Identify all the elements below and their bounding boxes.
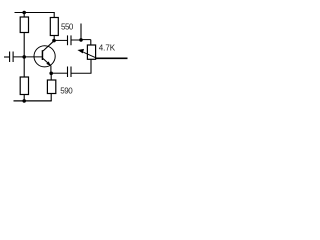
transistor Q1 emitter arrowhead (46, 61, 51, 66)
wire node to pot top (81, 39, 91, 41)
capacitor C3 plate left (67, 67, 69, 78)
capacitor C3 plate right (70, 67, 72, 78)
resistor R4 590 (47, 80, 55, 94)
resistor R2 550 (50, 18, 58, 36)
svg-text:4.7K: 4.7K (99, 43, 116, 52)
wire R2 bottom lead (53, 36, 55, 41)
wire R4 bottom lead (50, 94, 52, 101)
wire top rail Vcc (15, 12, 55, 14)
transistor Q1 base bar (42, 50, 44, 60)
potentiometer P1 box (87, 45, 95, 59)
wire bottom rail (14, 100, 52, 102)
wire R3 bottom lead (23, 95, 25, 101)
svg-text:550: 550 (61, 22, 74, 31)
svg-text:590: 590 (60, 87, 73, 96)
node emitter junction (49, 72, 53, 76)
transistor Q1 collector diagonal (43, 41, 54, 51)
capacitor C2 plate right (70, 35, 72, 45)
node junction top-left (22, 11, 26, 15)
transistor Q1 circle (34, 46, 55, 67)
resistor R1 (upper-left bias) (20, 17, 28, 33)
wire base (14, 56, 42, 58)
node collector junction (52, 39, 56, 43)
wire wiper output (96, 57, 128, 59)
node ground junction (22, 99, 26, 103)
wire collector to C2 (54, 39, 67, 41)
wire pot bottom lead (90, 59, 92, 73)
wire emitter vertical (50, 66, 52, 74)
wire C2 to node (72, 39, 82, 41)
wire left column upper lead (23, 13, 25, 18)
wire input left (4, 56, 9, 58)
capacitor C2 plate left (67, 35, 69, 45)
wire C3 to pot bottom (72, 72, 92, 74)
capacitor C1 input plate left (9, 52, 11, 63)
potentiometer P1 wiper arrowhead (77, 49, 84, 54)
capacitor C1 input plate right (12, 52, 14, 63)
node base junction (22, 55, 26, 59)
wire R4 top lead (50, 73, 52, 80)
wire emitter to C3 (51, 72, 67, 74)
wire left column middle (23, 33, 25, 78)
node output junction (79, 38, 83, 42)
wire pot top lead (90, 40, 92, 45)
potentiometer P1 wiper diagonal (83, 52, 97, 58)
wire R2 top lead (53, 13, 55, 18)
transistor Q1 emitter diagonal (43, 59, 51, 66)
wire stub up (80, 24, 82, 41)
resistor R3 (lower-left bias) (20, 77, 28, 95)
